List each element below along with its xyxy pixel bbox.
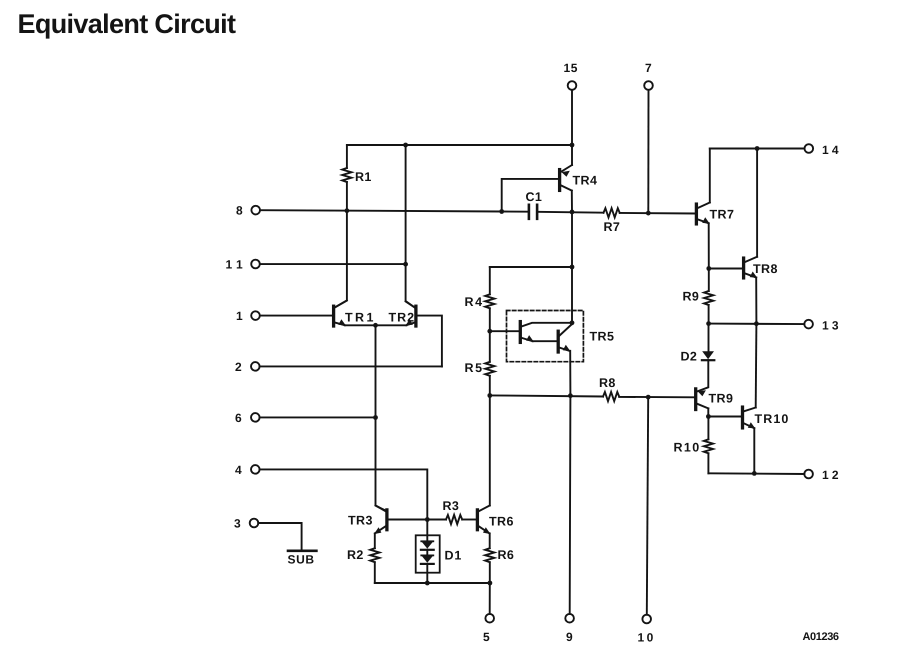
wire TR2 base to pin2 line <box>417 316 442 367</box>
wire TR7 emitter down <box>708 223 710 268</box>
node pin7-R7 <box>646 211 651 216</box>
pin 13 <box>804 320 813 329</box>
transistor TR6 <box>476 510 479 530</box>
wire R9 top <box>708 269 710 292</box>
svg-text:9: 9 <box>566 630 573 644</box>
svg-text:4: 4 <box>235 463 242 477</box>
transistor TR4 (PNP) <box>558 170 561 191</box>
pin 9 <box>565 614 574 623</box>
svg-text:14: 14 <box>822 143 842 157</box>
transistor TR5b <box>557 331 560 352</box>
wire TR10 base <box>708 416 741 418</box>
resistor R3 <box>446 515 462 524</box>
wire R8 to TR9 base <box>619 396 694 398</box>
transistor TR8 <box>742 258 745 278</box>
svg-text:TR7: TR7 <box>710 208 735 222</box>
wire TR4 top to rail <box>571 145 573 165</box>
pin 8 <box>251 206 260 215</box>
transistor TR3 <box>385 510 388 530</box>
wire TR10 emitter down to pin12 line <box>753 428 755 473</box>
TR5 dashed box <box>507 311 584 362</box>
diode D1 (two series diodes) <box>421 540 433 542</box>
wire pin11-node down to TR2 collector <box>406 264 415 307</box>
D1 box <box>416 535 440 572</box>
svg-text:6: 6 <box>235 411 242 425</box>
node TR5 base <box>487 329 492 334</box>
svg-text:R5: R5 <box>465 361 484 375</box>
node R6 bottom / pin5 <box>488 581 493 586</box>
wire TR8 collector up to pin14 line <box>756 149 758 257</box>
svg-text:D2: D2 <box>681 350 698 364</box>
resistor R8 <box>603 392 619 401</box>
wire R1 bottom to pin8 line <box>346 182 348 211</box>
top rail wire <box>347 144 572 146</box>
wire TR10 collector up to pin13 node <box>755 324 758 408</box>
pin 10 <box>642 615 651 624</box>
wire TR4 base <box>502 179 558 212</box>
svg-text:15: 15 <box>564 61 579 75</box>
svg-text:TR4: TR4 <box>573 174 598 188</box>
wire TR6 emitter to R6 <box>489 533 491 548</box>
transistor TR2 <box>414 306 417 326</box>
svg-text:TR5: TR5 <box>590 330 615 344</box>
pin 12 <box>804 470 813 479</box>
svg-text:8: 8 <box>236 204 243 218</box>
wire R10 top <box>707 417 709 440</box>
transistor TR1 <box>332 306 335 326</box>
node pin6 <box>373 415 378 420</box>
resistor R4 <box>485 294 494 308</box>
resistor R6 <box>485 548 494 562</box>
wire R10 bottom to pin12 line <box>707 453 709 473</box>
svg-text:A01236: A01236 <box>803 631 839 643</box>
wire TR8 emitter down to pin13 line <box>755 278 757 324</box>
svg-text:TR2: TR2 <box>389 311 416 325</box>
node TR10 emitter pin12 <box>752 471 757 476</box>
svg-text:TR10: TR10 <box>755 412 790 426</box>
node pin11 junction <box>403 262 408 267</box>
wire TR7 collector up <box>709 149 711 203</box>
wire TR9 emitter down <box>707 408 709 416</box>
pin 4 <box>251 465 260 474</box>
node TR10 base <box>706 414 711 419</box>
svg-text:11: 11 <box>226 258 248 272</box>
transistor TR9 (PNP) <box>694 389 697 410</box>
resistor R10 <box>704 439 713 453</box>
svg-text:Equivalent Circuit: Equivalent Circuit <box>18 9 236 39</box>
wire D2 to TR9 collector <box>697 360 708 391</box>
svg-text:R10: R10 <box>674 441 701 455</box>
node R9-pin13 <box>706 321 711 326</box>
wire pin1 to TR1 base <box>260 315 332 317</box>
pin 14 <box>805 144 814 153</box>
wire R6 bottom to pin5 <box>489 562 491 614</box>
svg-text:R4: R4 <box>465 295 484 309</box>
svg-text:R2: R2 <box>347 548 364 562</box>
node R1-pin8 <box>345 208 350 213</box>
node pin10 <box>646 395 651 400</box>
wire pin12 line <box>708 472 804 475</box>
wire R2 bottom <box>374 562 376 583</box>
node bus-pin14 <box>755 146 760 151</box>
wire common emitter down to pin6 node <box>375 325 377 417</box>
pin 7 <box>644 81 653 90</box>
wire C1 right to R7 <box>537 211 603 214</box>
wire R9 bottom to pin13 line <box>708 305 710 324</box>
wire TR5a emitter to TR5b base <box>533 340 557 342</box>
node pin4-base line <box>425 517 430 522</box>
svg-text:TR9: TR9 <box>709 392 734 406</box>
wire TR1/TR2 emitters <box>345 324 407 326</box>
wire pin2 <box>260 365 442 367</box>
resistor R9 <box>704 291 713 305</box>
svg-text:TR6: TR6 <box>489 515 514 529</box>
svg-text:2: 2 <box>235 360 242 374</box>
resistor R5 <box>485 362 494 376</box>
svg-text:TR3: TR3 <box>348 514 373 528</box>
wire node to R5 <box>489 331 491 362</box>
node TR8 emitter bus <box>754 321 759 326</box>
wire R3 to TR6 base <box>462 519 476 521</box>
svg-text:D1: D1 <box>445 549 463 563</box>
wire pin13 line <box>709 323 805 326</box>
wire R1 top <box>346 145 348 168</box>
wire TR5b emitter down <box>569 351 571 396</box>
node rail-TR2col <box>403 143 408 148</box>
svg-text:R6: R6 <box>498 548 515 562</box>
pin 15 <box>568 81 577 90</box>
pin 11 <box>251 260 260 269</box>
wire TR8 base <box>709 268 742 270</box>
wire pin14 line <box>710 148 805 150</box>
wire pin9 <box>569 396 572 614</box>
wire TR4 bottom to pin8 line <box>571 191 573 212</box>
wire pin11 <box>260 263 406 265</box>
wire TR4 node down <box>571 212 573 323</box>
bottom common wire <box>375 582 490 584</box>
wire R4 bottom to TR5 base node <box>489 308 491 331</box>
pin 2 <box>251 362 260 371</box>
pin 3 <box>250 519 259 528</box>
wire R4 top stub <box>489 267 491 294</box>
wire pin4 node into D1 <box>426 520 428 542</box>
wire pin4 to D1 top <box>260 469 428 519</box>
node TR4 emitter line <box>570 210 575 215</box>
wire R5 bottom to R8 node <box>489 376 491 396</box>
wire R7 to TR7 base <box>620 212 695 215</box>
resistor R1 <box>342 168 351 182</box>
svg-text:5: 5 <box>483 630 490 644</box>
pin 1 <box>251 311 260 320</box>
capacitor C1 <box>529 205 537 219</box>
wire R8 line <box>490 395 603 396</box>
pin 5 <box>485 614 494 623</box>
node D1 bottom <box>425 581 430 586</box>
svg-text:12: 12 <box>822 468 842 482</box>
node pin9 <box>568 393 573 398</box>
wire R1 node down to TR1 collector <box>335 211 347 308</box>
pin 6 <box>251 413 260 422</box>
svg-text:TR8: TR8 <box>753 262 778 276</box>
wire pin6 <box>260 416 376 418</box>
resistor R2 <box>370 548 379 562</box>
svg-text:7: 7 <box>645 61 652 75</box>
svg-text:R8: R8 <box>599 376 616 390</box>
node TR8 base <box>706 266 711 271</box>
node R8 left <box>487 393 492 398</box>
wire TR3 base to R3 <box>388 519 446 521</box>
wire TR3 emitter to R2 <box>374 533 376 548</box>
transistor TR7 <box>695 204 698 224</box>
resistor R7 <box>604 208 620 217</box>
svg-text:SUB: SUB <box>288 553 315 567</box>
wire pin7 down to R7 line <box>647 90 649 213</box>
wire TR5 base <box>490 330 519 332</box>
wire pin10 <box>647 397 648 615</box>
svg-text:3: 3 <box>234 517 241 531</box>
node TR5 collectors <box>570 320 575 325</box>
wire pin3 to SUB <box>258 523 301 551</box>
wire node down to TR3 collector <box>376 418 387 512</box>
svg-text:R9: R9 <box>683 290 700 304</box>
svg-text:R1: R1 <box>355 170 372 184</box>
svg-text:R3: R3 <box>443 499 460 513</box>
wire vertical TR2 collector to rail <box>405 145 407 264</box>
node R4 line <box>570 265 575 270</box>
svg-text:C1: C1 <box>526 190 543 204</box>
SUB bar <box>288 549 316 552</box>
transistor TR10 <box>741 407 744 428</box>
transistor TR5a <box>519 322 522 343</box>
wire pin8 line <box>260 210 528 212</box>
wire R4 top line <box>490 266 572 268</box>
svg-text:13: 13 <box>822 318 842 332</box>
svg-text:10: 10 <box>638 631 656 645</box>
wire node down to TR6 collector <box>489 396 491 506</box>
diode D2 <box>702 351 714 359</box>
svg-text:TR1: TR1 <box>345 311 376 325</box>
node rail-TR4 <box>570 143 575 148</box>
svg-text:R7: R7 <box>604 220 621 234</box>
wire pin15 to top rail <box>571 90 573 145</box>
node common emitters <box>373 323 378 328</box>
wire pin13 node down to D2 <box>708 324 710 352</box>
svg-text:1: 1 <box>236 309 243 323</box>
node C1 left / TR4 base <box>499 209 504 214</box>
